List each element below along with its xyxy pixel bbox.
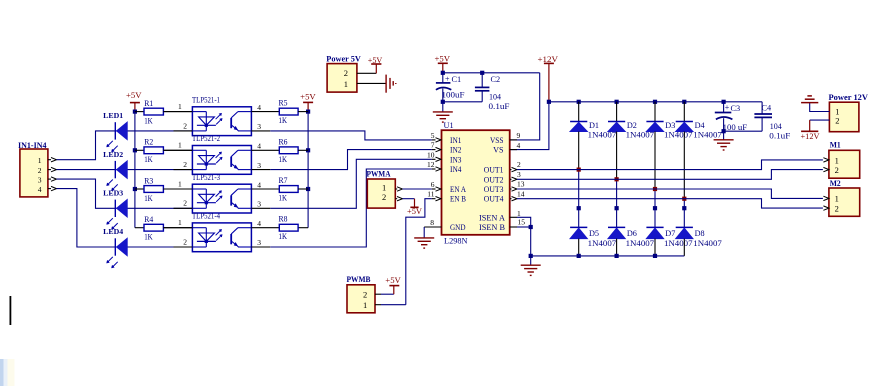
svg-text:1: 1 [178,218,182,227]
optocoupler U-TLP521-2 [163,134,279,174]
svg-text:2: 2 [38,166,42,175]
connector PWMA [367,179,395,208]
svg-text:+12V: +12V [801,132,820,141]
svg-text:IN1-IN4: IN1-IN4 [18,141,47,150]
connector Power 5V [327,64,357,93]
svg-text:4: 4 [38,185,42,194]
svg-text:100uF: 100uF [442,91,466,100]
wire opto3 out to IN3 [270,159,432,208]
svg-text:2: 2 [183,199,187,208]
junction dots on left rail [133,110,137,114]
wire Power12V pin1 to ground [810,103,830,112]
svg-text:2: 2 [382,192,386,202]
diode D1 [570,100,616,170]
svg-text:1: 1 [835,155,839,165]
capacitor C2 [475,73,510,111]
svg-text:1N4007: 1N4007 [588,239,617,248]
power +5V main (C1) [438,62,448,64]
svg-text:D7: D7 [665,229,675,238]
svg-text:1N4007: 1N4007 [664,239,693,248]
connector PWMB [347,285,375,313]
svg-text:R6: R6 [279,137,288,146]
connector M1 [829,150,860,178]
node ISEN B junction [529,225,533,229]
diode D2 [608,100,654,180]
svg-text:Power 5V: Power 5V [326,55,361,64]
svg-text:1: 1 [178,179,182,188]
ground below C3 [723,131,725,140]
svg-text:10: 10 [427,150,435,159]
capacitor C4 [754,102,791,141]
svg-text:LED1: LED1 [103,111,123,120]
power +5V at PWMB [393,286,395,295]
svg-text:M2: M2 [830,179,841,188]
wire Power12V pin2 to +12V [810,119,830,121]
wire PWMB pin2 to +5V [381,293,394,295]
svg-text:2: 2 [183,121,187,130]
node C2 top junction [480,71,484,75]
svg-text:4: 4 [257,103,261,112]
svg-text:Power 12V: Power 12V [829,93,869,102]
svg-text:+5V: +5V [368,56,383,65]
optocoupler U-TLP521-4 [163,212,279,252]
svg-text:OUT3: OUT3 [484,185,504,194]
node +12V junction [547,100,551,104]
svg-text:1: 1 [344,79,348,89]
wire PWMB pin1 to EN B [406,199,432,305]
power +5V left rail symbol [130,102,140,104]
svg-text:1K: 1K [279,155,288,164]
svg-text:VSS: VSS [490,136,504,145]
LED LED1 [99,111,192,152]
resistor R1 [135,99,193,125]
svg-text:R1: R1 [144,99,153,108]
svg-text:104: 104 [489,92,501,101]
svg-text:3: 3 [257,161,261,170]
svg-text:TLP521-3: TLP521-3 [192,173,220,182]
svg-text:IN4: IN4 [450,165,462,174]
svg-text:+5V: +5V [385,276,401,285]
svg-text:2: 2 [363,289,367,299]
wire OUT2 to M1 pin2 [517,170,823,180]
LED LED4 [99,227,192,268]
svg-text:C3: C3 [731,104,741,113]
svg-text:100 uF: 100 uF [723,123,748,132]
svg-text:+5V: +5V [300,93,316,102]
svg-text:R4: R4 [144,215,153,224]
svg-text:1N4007: 1N4007 [626,239,655,248]
svg-text:TLP521-1: TLP521-1 [192,96,220,105]
power +12V at Power12V [809,120,811,131]
wire OUT3 to M2 pin1 [517,189,823,198]
svg-text:2: 2 [835,115,839,125]
node C1 bottom junction [441,100,445,104]
IC U1 L298N [442,130,510,235]
optocoupler U-TLP521-1 [163,96,279,136]
wire Power5V pin1 to ground [357,82,386,84]
svg-text:C4: C4 [762,103,773,112]
svg-text:0.1uF: 0.1uF [489,102,511,111]
power +5V right rail symbol [303,101,313,103]
svg-text:D1: D1 [589,121,599,130]
svg-text:ISEN B: ISEN B [479,223,505,232]
svg-text:R8: R8 [279,215,288,224]
node junctions bottom rail [577,254,581,258]
power +5V at PWMA [414,199,416,208]
svg-text:2: 2 [517,160,521,169]
svg-text:1K: 1K [279,232,288,241]
svg-text:7: 7 [431,141,435,150]
svg-text:1K: 1K [144,194,153,203]
svg-text:1N4007: 1N4007 [693,131,722,140]
svg-text:8: 8 [430,218,434,227]
svg-text:12: 12 [427,160,435,169]
node +5V junction C1 [441,71,445,75]
diode D6 [608,179,654,256]
svg-text:VS: VS [493,146,504,155]
wire ISEN down to bottom rail [530,227,532,256]
svg-text:GND: GND [450,223,466,232]
svg-text:1K: 1K [279,116,288,125]
svg-text:5: 5 [431,131,435,140]
svg-text:PWMA: PWMA [367,169,391,178]
optocoupler U-TLP521-3 [163,173,279,213]
svg-text:IN1: IN1 [450,136,462,145]
svg-text:+: + [725,103,730,112]
wire opto4 out to IN4 [270,169,432,247]
node junctions OUT rows at diode columns [577,168,581,172]
svg-text:1: 1 [178,102,182,111]
svg-text:+5V: +5V [407,207,422,216]
connector Power 12V [829,102,859,132]
U1 left pin stubs and numbers [427,131,441,201]
svg-text:C2: C2 [491,75,501,84]
svg-text:TLP521-2: TLP521-2 [192,134,220,143]
svg-text:OUT4: OUT4 [484,195,504,204]
resistor R2 [135,138,193,164]
svg-text:D4: D4 [695,121,705,130]
wire OUT1 to M1 pin1 [517,160,823,170]
wire bottom ground rail [531,255,685,257]
wire VSS net drop [510,73,540,140]
svg-text:LED3: LED3 [103,189,123,198]
wire ISEN A to ISEN B join [517,217,531,227]
svg-text:2: 2 [835,203,839,213]
ground at Power5V (rotated) [385,75,387,93]
wire rail corner to R4 [135,227,144,229]
U1 left pin labels [450,136,466,232]
wire IN pin4 to LED4 row [57,189,100,247]
svg-text:+: + [445,75,450,84]
wire C1 to C2 bottom [443,101,482,103]
wire +12V top rail [549,101,762,103]
node C3 top junction [722,100,726,104]
svg-text:TLP521-4: TLP521-4 [192,212,220,221]
svg-text:D6: D6 [627,229,637,238]
svg-text:EN B: EN B [450,195,466,204]
cursor artifact [10,296,12,325]
svg-text:L298N: L298N [444,237,468,246]
node C3 bottom junction [722,129,726,133]
svg-text:9: 9 [517,131,521,140]
wire C3 to C4 bottom [724,130,763,132]
svg-text:EN A: EN A [450,185,466,194]
U1 right pin stubs and numbers [510,131,531,227]
diode D7 [646,189,692,256]
wire OUT4 to M2 pin2 [517,199,823,208]
resistor R8 [279,215,299,242]
LED LED2 [99,150,192,191]
svg-text:1: 1 [178,141,182,150]
ground below C1 [442,102,444,112]
U1 right pin labels [479,136,505,232]
diode D3 [646,100,692,189]
resistor R6 [279,137,309,164]
resistor R5 [279,99,309,126]
svg-text:D5: D5 [589,229,599,238]
LED LED3 [99,189,192,230]
resistor R7 [279,176,309,203]
svg-text:D3: D3 [665,121,675,130]
svg-text:1K: 1K [144,233,153,242]
svg-text:1: 1 [382,183,386,193]
svg-text:R7: R7 [279,176,288,185]
wire Power5V pin2 to +5V [357,72,376,74]
svg-text:4: 4 [517,141,521,150]
svg-text:R3: R3 [144,176,153,185]
svg-text:6: 6 [431,180,435,189]
resistor R4 [144,215,192,241]
resistor R3 [135,176,193,202]
capacitor C3 [715,102,748,132]
power +5V at Power5V [375,64,377,73]
power +12V main [544,62,554,64]
ground above Power12V [801,102,818,104]
svg-text:3: 3 [38,175,42,184]
wire IN pin2 to LED2 row [57,169,100,171]
svg-text:4: 4 [257,142,261,151]
diode D5 [570,170,616,256]
svg-text:OUT2: OUT2 [484,175,504,184]
U1 GND pin stub [424,226,441,228]
svg-text:+12V: +12V [538,55,559,64]
connector M2 [829,188,860,216]
wire PWMA pin2 to +5V [403,198,415,200]
wire IN pin1 to LED1 row [57,131,100,160]
svg-text:2: 2 [344,68,348,78]
wire PWMA pin1 to EN A [403,188,432,190]
svg-text:1K: 1K [144,155,153,164]
node bottom rail left junction [529,254,533,258]
corner artifact [0,359,4,386]
svg-text:IN3: IN3 [450,155,462,164]
svg-text:R5: R5 [279,99,288,108]
svg-text:1: 1 [835,194,839,204]
svg-text:LED4: LED4 [103,227,123,236]
svg-text:IN2: IN2 [450,146,462,155]
svg-text:M1: M1 [830,141,841,150]
svg-text:C1: C1 [452,75,462,84]
ground at ISEN [530,256,532,265]
svg-text:1: 1 [38,156,42,165]
capacitor C1 [436,73,465,102]
svg-text:D8: D8 [695,229,705,238]
svg-text:0.1uF: 0.1uF [769,132,791,141]
svg-text:3: 3 [257,122,261,131]
wire +12V down to VS [510,102,549,150]
svg-text:1: 1 [363,300,367,310]
wire opto2 out to IN2 [270,150,432,170]
ground at U1 GND [423,227,425,238]
svg-text:4: 4 [257,219,261,228]
svg-text:LED2: LED2 [103,150,123,159]
wire +5V top rail to VSS drop [443,72,540,74]
wire +5V rail right [307,112,309,228]
wire opto1 out to IN1 [270,131,432,140]
svg-text:3: 3 [257,200,261,209]
svg-text:14: 14 [517,189,525,198]
diode D4 [676,100,722,199]
svg-text:+5V: +5V [126,91,142,100]
svg-text:3: 3 [517,170,521,179]
wire PWMB pin1 horizontal [381,304,406,306]
svg-text:1K: 1K [279,194,288,203]
diode D8 [676,199,722,256]
svg-text:4: 4 [257,180,261,189]
wire +5V rail left [134,112,136,228]
svg-text:D2: D2 [627,121,637,130]
svg-text:1N4007: 1N4007 [693,239,722,248]
svg-text:R2: R2 [144,138,153,147]
svg-text:+5V: +5V [435,55,451,64]
svg-text:13: 13 [517,180,525,189]
svg-text:11: 11 [427,190,434,199]
svg-text:PWMB: PWMB [347,275,372,284]
wire IN pin3 to LED3 row [57,179,100,208]
connector IN1-IN4 [20,149,48,197]
svg-text:104: 104 [770,122,782,131]
svg-text:ISEN A: ISEN A [479,213,505,222]
svg-text:15: 15 [518,218,526,227]
svg-text:2: 2 [835,165,839,175]
svg-text:OUT1: OUT1 [484,166,504,175]
svg-text:2: 2 [183,237,187,246]
svg-text:3: 3 [257,238,261,247]
svg-text:1K: 1K [144,116,153,125]
svg-text:2: 2 [183,160,187,169]
svg-text:U1: U1 [444,121,454,130]
